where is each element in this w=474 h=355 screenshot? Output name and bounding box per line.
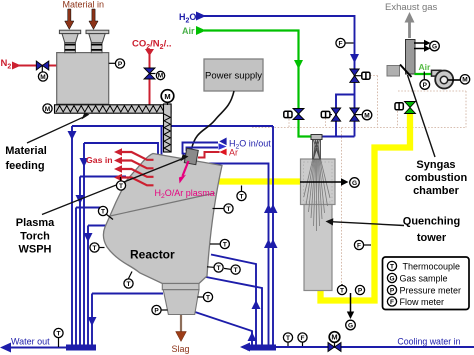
svg-text:Air: Air: [419, 62, 432, 72]
svg-text:F: F: [357, 242, 361, 249]
svg-text:T: T: [390, 263, 394, 270]
svg-text:M: M: [331, 333, 337, 342]
svg-text:G: G: [348, 322, 353, 329]
svg-text:Ar: Ar: [229, 147, 238, 157]
svg-text:Air: Air: [182, 26, 195, 36]
svg-text:M: M: [364, 112, 369, 119]
svg-text:Flow meter: Flow meter: [400, 297, 445, 307]
svg-text:Torch: Torch: [20, 231, 50, 243]
svg-text:Water out: Water out: [11, 337, 50, 347]
svg-text:Syngas: Syngas: [416, 159, 455, 171]
svg-text:Thermocouple: Thermocouple: [403, 261, 461, 271]
svg-text:Cooling water in: Cooling water in: [397, 337, 460, 347]
svg-text:T: T: [93, 245, 97, 252]
svg-text:P: P: [154, 307, 159, 314]
svg-text:T: T: [223, 241, 227, 248]
svg-text:Material: Material: [5, 145, 47, 157]
svg-text:P: P: [423, 82, 428, 89]
svg-text:T: T: [234, 267, 238, 274]
svg-text:Pressure meter: Pressure meter: [400, 285, 462, 295]
svg-text:T: T: [101, 208, 105, 215]
svg-text:combustion: combustion: [405, 172, 468, 184]
svg-text:P: P: [358, 287, 363, 294]
svg-text:P: P: [118, 61, 123, 68]
svg-text:T: T: [227, 206, 231, 213]
svg-text:F: F: [301, 335, 305, 342]
svg-text:T: T: [217, 265, 221, 272]
svg-text:tower: tower: [417, 232, 447, 244]
svg-text:T: T: [240, 193, 244, 200]
svg-text:Exhaust gas: Exhaust gas: [385, 2, 438, 13]
svg-text:G: G: [432, 43, 437, 50]
svg-text:F: F: [390, 299, 394, 306]
svg-text:T: T: [119, 183, 123, 190]
svg-text:feeding: feeding: [5, 160, 44, 172]
svg-text:P: P: [390, 287, 395, 294]
svg-text:Gas sample: Gas sample: [400, 273, 448, 283]
svg-text:Plasma: Plasma: [16, 217, 55, 229]
svg-text:Quenching: Quenching: [403, 216, 460, 228]
svg-text:WSPH: WSPH: [19, 244, 52, 256]
svg-text:M: M: [164, 92, 170, 101]
svg-text:M: M: [40, 74, 45, 81]
svg-text:M: M: [45, 106, 50, 113]
svg-text:Slag: Slag: [171, 344, 189, 354]
svg-text:Material in: Material in: [63, 0, 105, 10]
svg-text:T: T: [340, 287, 344, 294]
svg-text:CO2/N2/..: CO2/N2/..: [132, 39, 171, 52]
svg-text:G: G: [352, 180, 357, 187]
svg-text:Reactor: Reactor: [130, 248, 175, 262]
svg-text:T: T: [127, 281, 131, 288]
svg-text:Gas in: Gas in: [86, 155, 113, 165]
svg-text:T: T: [57, 330, 61, 337]
svg-text:T: T: [286, 335, 290, 342]
svg-text:T: T: [206, 294, 210, 301]
svg-text:Power supply: Power supply: [205, 71, 262, 82]
svg-text:F: F: [339, 40, 343, 47]
svg-text:chamber: chamber: [413, 185, 460, 197]
svg-text:M: M: [158, 73, 163, 80]
svg-text:M: M: [462, 77, 467, 84]
svg-text:G: G: [389, 275, 394, 282]
